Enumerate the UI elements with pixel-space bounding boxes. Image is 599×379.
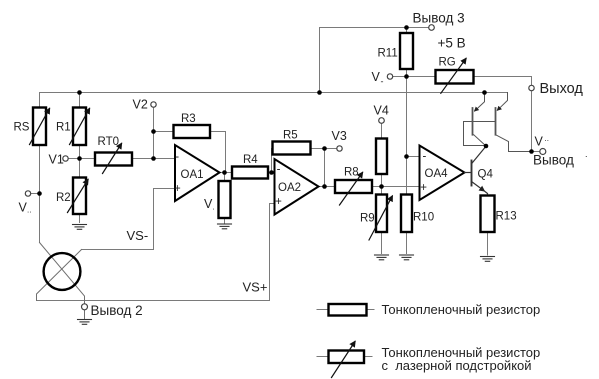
svg-text:.: . [585,149,588,159]
svg-text:RS: RS [14,122,30,134]
wire top rail [40,93,508,108]
wire left column [39,145,41,243]
svg-text:Тонкопленочный резистор: Тонкопленочный резистор [382,302,541,317]
wire VS- path to OA1 plus [82,189,176,250]
svg-text:Q4: Q4 [478,169,494,181]
legend laser-trimmed resistor [317,356,329,358]
wire VS+ path to OA2 plus [270,204,275,301]
op-amp OA1 [175,145,220,201]
svg-text:R8: R8 [344,167,359,179]
svg-text:+: + [420,182,427,194]
svg-text:VS-: VS- [127,228,149,243]
wire riser to top rail [319,28,321,93]
wire R5 left branch [271,149,273,173]
svg-text:R4: R4 [243,154,258,166]
svg-text:R1: R1 [56,122,71,134]
svg-text:Вывод 2: Вывод 2 [91,303,143,318]
wire R11-R10 column [406,28,408,254]
svg-text:Вывод: Вывод [533,153,574,168]
svg-text:с лазерной подстройкой: с лазерной подстройкой [382,358,532,373]
svg-text:R11: R11 [378,47,398,59]
wire V4 column [381,124,383,187]
svg-text:R5: R5 [283,130,298,142]
svg-text:RT0: RT0 [98,136,120,148]
wire OA1 output row [220,172,272,174]
wire R3 feedback riser [225,132,227,173]
ground below R13 [481,257,495,262]
resistor R11 [400,33,413,69]
wire OA2 output row [319,186,382,188]
wire bottom rail [37,300,270,302]
svg-text:V1: V1 [49,153,64,167]
resistor RT0 [95,153,132,166]
svg-text:-: - [175,151,179,163]
svg-text:R10: R10 [413,211,434,223]
wire R5 row to V3 [272,148,337,150]
wire V-resistor column under OA1 [224,173,226,224]
svg-text:V2: V2 [133,98,148,112]
current mirror left transistor [473,93,487,147]
resistor RS [33,108,46,146]
wire OA4 plus row [382,186,420,188]
wire RT0 row [80,158,154,160]
svg-text:..: .. [27,206,31,215]
svg-text:V4: V4 [374,104,389,118]
resistor R4 [232,167,268,179]
svg-text:Выход: Выход [540,81,584,97]
wire R3 row [154,131,226,133]
svg-text:-: - [423,151,427,163]
svg-text:..: .. [545,134,549,143]
ground below R9 [375,255,389,260]
svg-text:OA4: OA4 [425,168,449,180]
wire R13 column [487,194,489,256]
wire OA4 minus stub [407,156,420,158]
svg-text:V: V [372,70,381,84]
mirror base link and diode loop [464,122,496,146]
svg-text:V3: V3 [332,129,347,143]
resistor R10 [401,195,412,233]
wire V3 riser to output [324,149,326,187]
resistor R9 [376,195,387,233]
svg-text:RG: RG [439,56,456,68]
resistor R1 [73,108,86,146]
terminal Vyvod2 stem and ground [84,301,86,304]
svg-text:+: + [275,196,282,208]
resistor above R9 (V4 divider) [376,139,387,175]
transistor Q4 [465,146,488,193]
wire Vyhod column [531,77,533,86]
resistor R8 [335,180,372,193]
resistor R2 [73,178,86,215]
bridge sensor X line B [37,250,82,301]
svg-text:-: - [277,163,281,175]
svg-text:.: . [213,203,215,212]
resistor R13 [481,196,495,233]
svg-text:+: + [174,183,181,195]
wire R1-R2 column [79,93,81,223]
svg-text:R3: R3 [181,113,196,125]
svg-text:+5 В: +5 В [438,35,466,50]
wire V.. terminal stub [31,193,40,195]
wire Vyvod3 row [320,27,429,29]
resistor V under OA1 [219,181,231,218]
resistor RG [436,70,474,84]
wire V2 column [153,108,155,159]
op-amp OA4 [420,146,465,201]
op-amp OA2 [275,159,319,215]
resistor R3 [174,125,211,138]
svg-text:R9: R9 [360,213,375,225]
ground below V resistor [218,224,232,229]
ground below R2 [73,225,87,230]
wire V1 stub [68,158,80,160]
svg-text:V: V [535,135,544,149]
wire OA1 minus stub [154,158,176,160]
svg-text:R2: R2 [56,192,71,204]
svg-text:R13: R13 [496,210,517,222]
resistor R5 [273,142,311,155]
current mirror right transistor [496,93,532,152]
svg-text:-: - [381,77,384,87]
wire output terminal stub [532,151,541,153]
legend thin-film resistor [317,309,329,311]
terminal circles [25,25,546,310]
ground below R10 [400,255,414,260]
bridge sensor circle [44,253,81,290]
wire V- stub [393,76,407,78]
wire R9 column to ground [381,187,383,254]
svg-text:OA1: OA1 [181,169,204,181]
svg-text:VS+: VS+ [243,280,268,295]
svg-text:OA2: OA2 [278,182,301,194]
bridge sensor X line A [40,243,85,301]
svg-text:Вывод 3: Вывод 3 [413,10,465,25]
wire RG row [407,76,532,78]
